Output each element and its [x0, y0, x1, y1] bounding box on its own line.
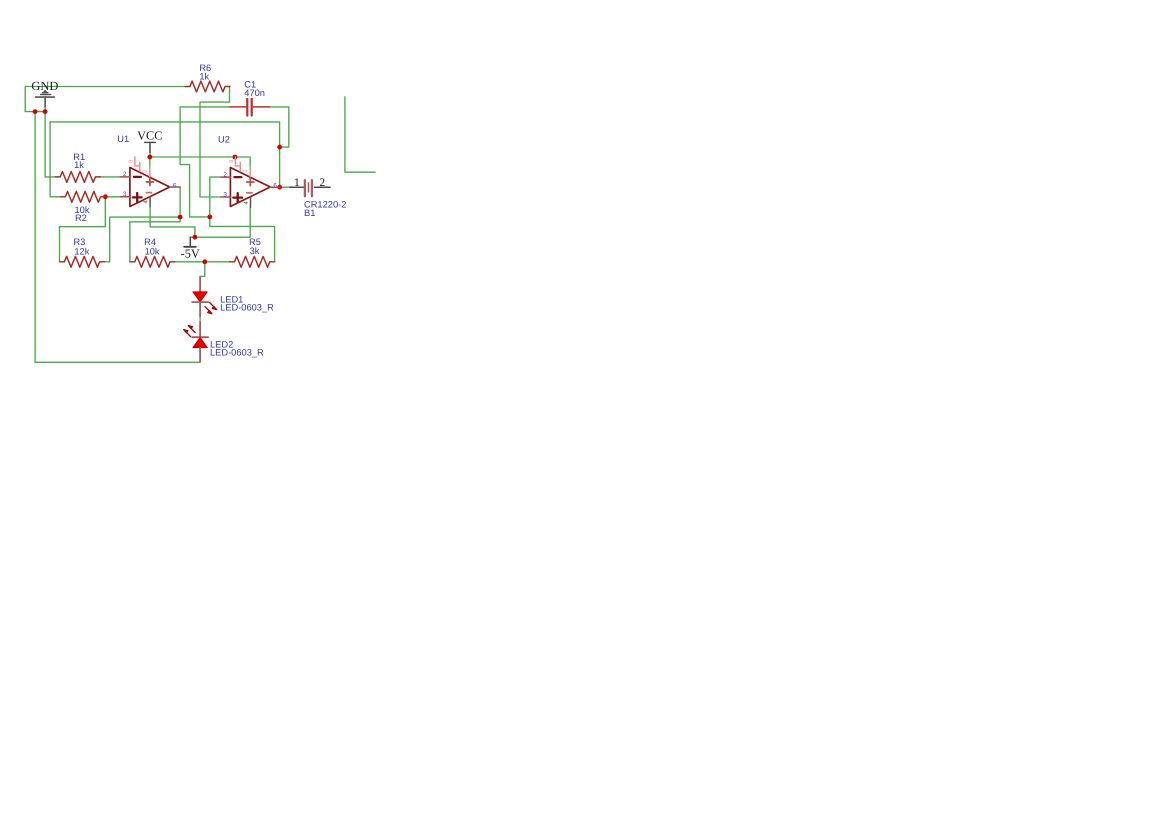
svg-text:470n: 470n: [244, 88, 265, 98]
resistor R4: [130, 256, 175, 267]
wire U1 output down: [179, 187, 181, 217]
svg-text:4: 4: [143, 200, 150, 204]
svg-text:3: 3: [223, 191, 227, 198]
junction node A: [178, 215, 183, 220]
svg-text:2: 2: [243, 169, 249, 172]
wire C1 right to feedback node: [269, 107, 288, 147]
wire U2 output vertical: [279, 147, 281, 187]
junction at U2 output: [277, 185, 282, 190]
wire bottom return: [35, 361, 200, 363]
op-amp U1 pin 2: [120, 176, 130, 178]
svg-text:VCC: VCC: [137, 129, 162, 143]
svg-text:B1: B1: [304, 208, 315, 218]
ground symbol GND: [36, 90, 55, 107]
wire U1 pin4 to -5V node: [150, 207, 195, 238]
svg-text:LED-0603_R: LED-0603_R: [210, 348, 264, 358]
svg-text:8: 8: [229, 160, 235, 163]
wire R2 right to U1 pin3: [105, 196, 120, 198]
power symbol VCC: [145, 142, 156, 152]
wire R2 node down to R3 left: [60, 197, 106, 262]
resistor R5: [230, 256, 275, 267]
svg-text:GND: GND: [31, 79, 58, 93]
svg-text:U2: U2: [218, 134, 230, 144]
op-amp U1 pin 4 V-: [149, 197, 151, 207]
op-amp U2 pin 6: [270, 186, 279, 188]
op-amp U2 pin 3: [221, 196, 231, 198]
wire R1 right to U1 pin2: [100, 176, 120, 178]
svg-text:2: 2: [223, 171, 227, 178]
svg-text:R2: R2: [75, 213, 87, 223]
wire node B to U2 pin2: [210, 177, 221, 217]
wire U2 output to B1: [280, 186, 290, 188]
wire GND top to R6: [25, 87, 185, 112]
op-amp U1 pin 6: [170, 186, 180, 188]
op-amp U2 pin 8 V+: [249, 167, 251, 177]
wire between LED1 LED2: [199, 317, 201, 322]
op-amp U1 pin 8 V+: [149, 167, 151, 177]
wire GND junction horizontal: [25, 111, 45, 113]
svg-text:3k: 3k: [250, 246, 260, 256]
junction at R2 right: [103, 194, 108, 199]
battery B1: [290, 180, 330, 196]
op-amp U1 non-inverting plus: [133, 193, 142, 202]
op-amp U1 V+ marker: [146, 178, 153, 185]
wire R4 right: [175, 261, 205, 263]
wire VCC to U1 pin8: [149, 157, 151, 167]
svg-text:4: 4: [243, 201, 250, 205]
wire R5 left: [205, 261, 230, 263]
wire LED drop from R4 R5 node: [200, 262, 205, 277]
power symbol -5V: [184, 237, 196, 247]
junction at GND stem: [43, 109, 48, 114]
capacitor C1: [230, 99, 270, 116]
junction at feedback corner: [277, 145, 282, 150]
wire GND stem lower: [44, 107, 46, 112]
op-amp U2: [221, 157, 280, 207]
LED1: [192, 277, 216, 317]
op-amp U1: [120, 157, 180, 207]
svg-text:LED-0603_R: LED-0603_R: [220, 303, 274, 313]
op-amp U2 inverting minus: [234, 176, 241, 178]
svg-text:8: 8: [129, 160, 135, 163]
op-amp U2 pin 2: [221, 176, 231, 178]
wire VCC rail: [150, 157, 250, 167]
op-amp U1 V- marker: [146, 192, 151, 194]
wire R3 right up to node A: [104, 217, 180, 262]
LED1 arrows: [205, 303, 217, 314]
junction at U2 VCC pin: [233, 155, 238, 160]
op-amp U2 pin 4 V-: [250, 197, 252, 207]
wire C1 left to node B: [180, 107, 230, 217]
wire GND to R1 left: [45, 112, 55, 177]
junction at VCC stem: [147, 155, 152, 160]
svg-text:R3: R3: [73, 237, 85, 247]
wire feedback top to R2 left: [50, 122, 60, 197]
junction at GND left: [33, 109, 38, 114]
junction node B: [207, 215, 212, 220]
wire right L shape: [345, 97, 375, 172]
LED2: [184, 322, 209, 361]
svg-text:1: 1: [294, 177, 300, 189]
svg-text:R4: R4: [144, 237, 156, 247]
wire VCC stem lower: [149, 152, 151, 157]
wire left long vertical: [34, 112, 36, 363]
svg-text:2: 2: [319, 177, 325, 189]
svg-text:6: 6: [273, 183, 277, 190]
svg-text:10k: 10k: [145, 247, 160, 257]
op-amp U2 power pin cluster: [235, 157, 240, 171]
op-amp U1 pin 3: [120, 196, 130, 198]
svg-text:1k: 1k: [74, 160, 84, 170]
op-amp U1 inverting minus: [134, 176, 141, 178]
op-amp U2 non-inverting plus: [233, 193, 242, 202]
resistor R2: [60, 191, 105, 202]
wire -5V rail to U2 pin4: [190, 207, 250, 237]
svg-text:3: 3: [123, 191, 127, 198]
wire long feedback top: [50, 122, 280, 147]
svg-text:12k: 12k: [74, 247, 89, 257]
wire LED2 bottom corner: [199, 361, 201, 362]
op-amp U2 V- marker: [247, 192, 252, 194]
wire node A to R4 left: [130, 217, 180, 262]
svg-text:2: 2: [123, 171, 127, 178]
wire R5 right up to node B: [210, 217, 275, 262]
svg-text:-5V: -5V: [181, 247, 200, 261]
junction at R4 R5 LED: [202, 259, 207, 264]
op-amp U2 V+ marker: [247, 179, 254, 186]
wire R6 right to U2 pin3: [200, 87, 230, 198]
junction at -5V: [193, 235, 198, 240]
svg-text:6: 6: [173, 182, 177, 189]
svg-text:2: 2: [143, 169, 149, 172]
resistor R3: [60, 256, 105, 267]
resistor R1: [55, 172, 100, 183]
svg-text:U1: U1: [117, 134, 129, 144]
op-amp U1 power pin cluster: [135, 157, 140, 171]
LED2 arrows: [184, 326, 196, 337]
svg-text:1k: 1k: [199, 72, 209, 82]
resistor R6: [185, 81, 230, 92]
